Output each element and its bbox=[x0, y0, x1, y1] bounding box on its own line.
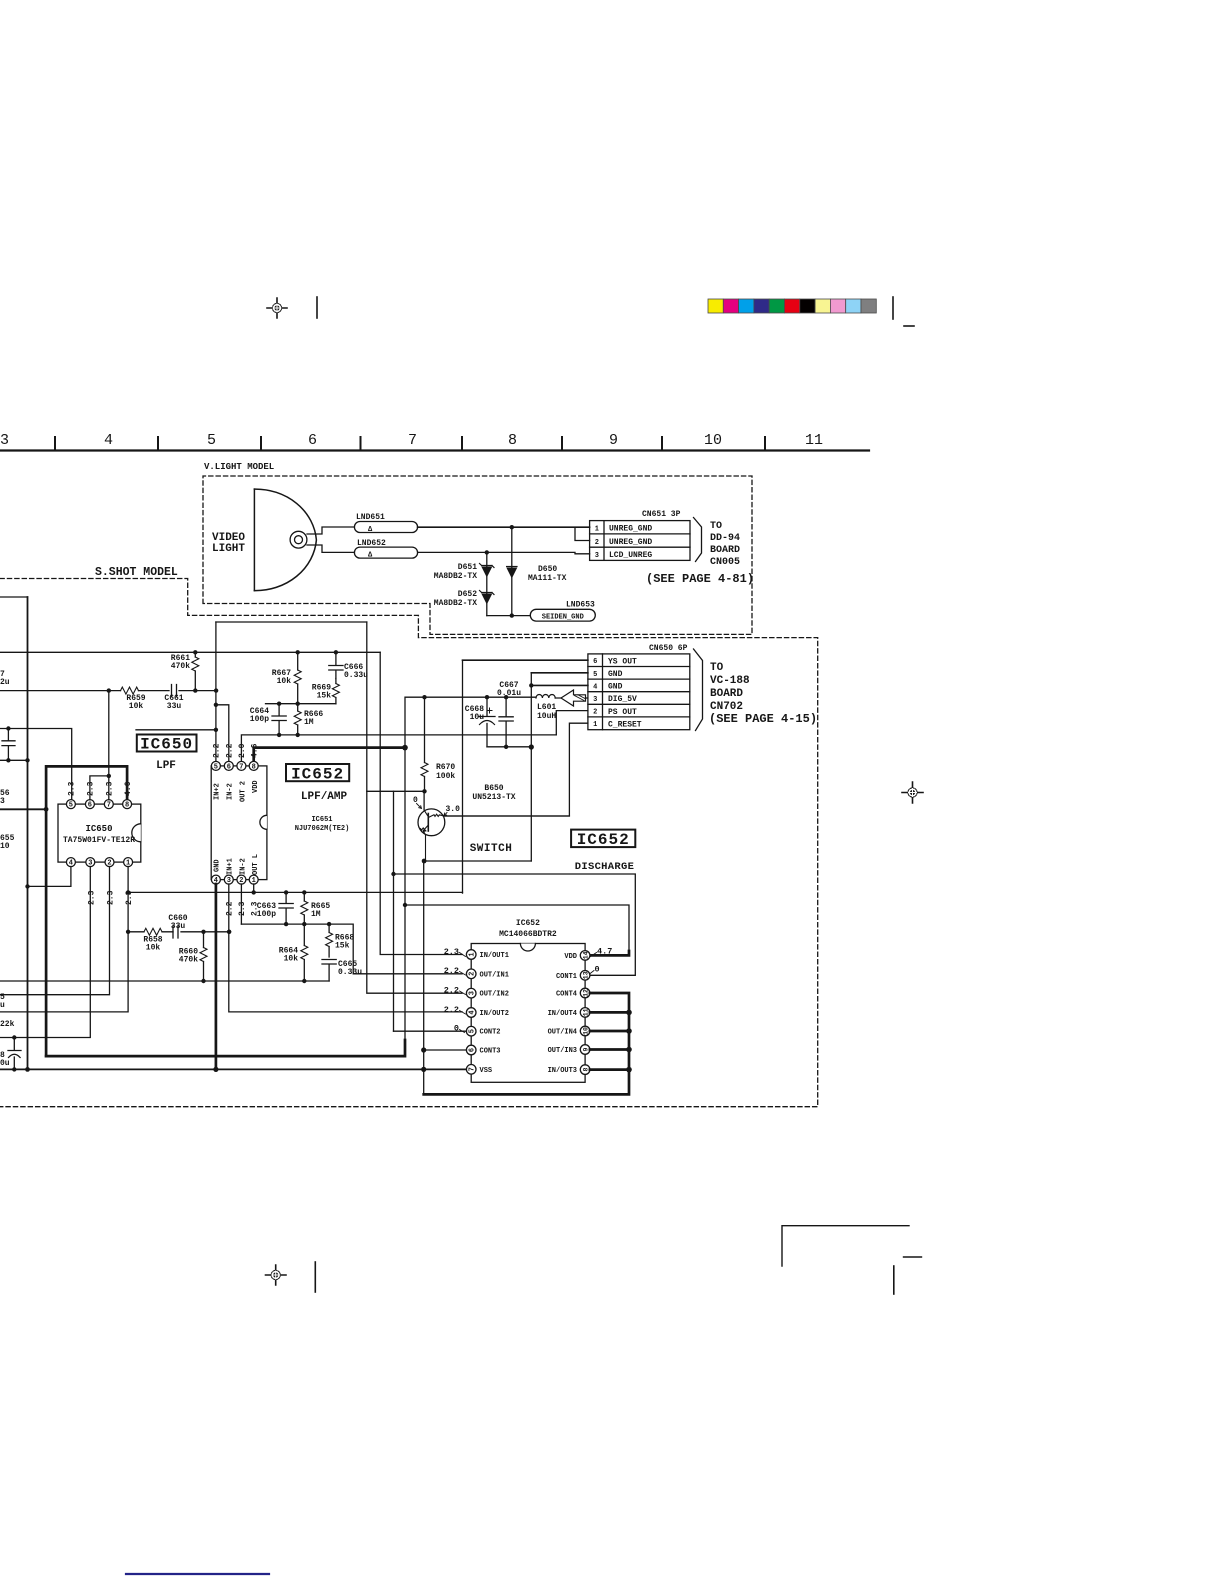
node junction on pin1 wire bbox=[510, 525, 514, 529]
svg-text:IN/OUT4: IN/OUT4 bbox=[548, 1010, 577, 1018]
svg-text:V.LIGHT MODEL: V.LIGHT MODEL bbox=[204, 462, 274, 472]
ferrite bead LND652 bbox=[354, 547, 417, 558]
svg-text:2.3: 2.3 bbox=[107, 890, 116, 905]
bottom-right corner frame bbox=[782, 1226, 909, 1266]
svg-text:IC652: IC652 bbox=[516, 919, 540, 928]
CONT2 row bbox=[394, 1030, 467, 1032]
capacitor C666 0.33u bbox=[329, 652, 343, 678]
svg-text:VDD: VDD bbox=[252, 780, 260, 793]
svg-text:6: 6 bbox=[469, 1048, 477, 1052]
label box IC650 bbox=[137, 735, 197, 752]
svg-text:TA75W01FV-TE12R: TA75W01FV-TE12R bbox=[63, 836, 135, 845]
capacitor C663 100p bbox=[279, 892, 293, 924]
capacitor C660 33u bbox=[173, 926, 178, 939]
svg-text:2.3: 2.3 bbox=[444, 947, 459, 957]
svg-text:IN-2: IN-2 bbox=[240, 858, 248, 875]
connector CN651 3P bbox=[590, 510, 690, 560]
svg-text:IN/OUT1: IN/OUT1 bbox=[480, 952, 509, 960]
capacitor C664 100p bbox=[272, 704, 286, 735]
svg-text:MA111-TX: MA111-TX bbox=[528, 574, 567, 583]
svg-text:5: 5 bbox=[593, 671, 597, 679]
wire C_RESET (pin1) bbox=[445, 723, 588, 816]
bold bottom run to discharge bus bbox=[46, 1040, 405, 1056]
svg-text:IN+2: IN+2 bbox=[214, 783, 222, 800]
svg-text:4.6: 4.6 bbox=[251, 743, 260, 758]
wire YS OUT (pin6) bbox=[463, 659, 588, 661]
svg-text:UN5213-TX: UN5213-TX bbox=[472, 793, 515, 802]
bold net IC650 pin8/VDD bbox=[46, 766, 127, 1056]
svg-text:10k: 10k bbox=[146, 944, 161, 953]
svg-text:2.2: 2.2 bbox=[213, 743, 222, 758]
node row y=703.7 bbox=[266, 703, 336, 705]
left pins 1-7 bbox=[466, 950, 476, 1074]
dashed box S.SHOT MODEL bbox=[0, 579, 818, 1107]
tiny annotation arrows bbox=[460, 953, 597, 1033]
svg-text:VDD: VDD bbox=[564, 953, 577, 961]
pin voltage labels IC650 top bbox=[68, 781, 135, 905]
svg-text:6: 6 bbox=[593, 658, 597, 666]
svg-text:VSS: VSS bbox=[480, 1067, 493, 1075]
svg-text:SWITCH: SWITCH bbox=[470, 843, 513, 855]
left fragment labels bbox=[0, 789, 15, 851]
row R658/C660 y=931.8 bbox=[128, 931, 229, 933]
svg-text:12: 12 bbox=[583, 989, 590, 997]
svg-text:8: 8 bbox=[125, 802, 129, 810]
svg-text:IC650: IC650 bbox=[85, 824, 112, 834]
svg-text:5: 5 bbox=[469, 1029, 477, 1033]
resistor R658 10k bbox=[144, 928, 162, 935]
svg-text:LIGHT: LIGHT bbox=[212, 543, 245, 555]
svg-text:UNREG_GND: UNREG_GND bbox=[609, 538, 652, 547]
wire IC650 pin7 up bbox=[108, 691, 110, 800]
wire IC650 pin4 bbox=[28, 867, 71, 887]
svg-text:22k: 22k bbox=[0, 1020, 15, 1029]
svg-text:6: 6 bbox=[227, 763, 231, 771]
brace right of CN651 bbox=[694, 518, 702, 562]
svg-text:10uH: 10uH bbox=[537, 712, 556, 721]
svg-text:YS OUT: YS OUT bbox=[608, 657, 637, 666]
svg-text:UNREG_GND: UNREG_GND bbox=[609, 525, 652, 534]
inductor L601 10uH bbox=[536, 694, 556, 721]
svg-text:2.3: 2.3 bbox=[106, 781, 115, 796]
svg-text:2: 2 bbox=[469, 972, 477, 976]
svg-text:14: 14 bbox=[583, 951, 590, 959]
svg-text:3: 3 bbox=[469, 991, 477, 995]
svg-text:8: 8 bbox=[583, 1068, 590, 1072]
svg-text:BOARD: BOARD bbox=[710, 545, 740, 556]
row OUT-L net y=892 bbox=[128, 891, 462, 893]
svg-text:2: 2 bbox=[595, 539, 599, 547]
CONT2 feed vertical bbox=[393, 791, 395, 1031]
svg-text:5: 5 bbox=[214, 763, 218, 771]
resistor R659 10k bbox=[121, 687, 139, 694]
svg-text:2.2: 2.2 bbox=[226, 901, 235, 916]
diode D650 bbox=[506, 527, 566, 615]
svg-text:2.2: 2.2 bbox=[226, 743, 235, 758]
svg-text:B650: B650 bbox=[484, 784, 503, 793]
svg-text:OUT/IN1: OUT/IN1 bbox=[480, 971, 509, 979]
svg-text:CONT1: CONT1 bbox=[556, 973, 577, 981]
svg-text:LPF: LPF bbox=[156, 760, 176, 772]
svg-text:5: 5 bbox=[207, 432, 216, 449]
transistor Q B650 (digital) bbox=[413, 791, 460, 861]
pin names inside chip bbox=[480, 952, 578, 1075]
svg-text:470k: 470k bbox=[171, 662, 190, 671]
resistor R660 470k bbox=[179, 932, 207, 981]
svg-text:9: 9 bbox=[583, 1047, 590, 1051]
svg-text:10: 10 bbox=[704, 432, 722, 449]
left fragment label (cut) bbox=[0, 670, 10, 687]
svg-text:2.0: 2.0 bbox=[238, 743, 247, 758]
svg-text:CONT4: CONT4 bbox=[556, 991, 577, 999]
svg-text:D650: D650 bbox=[538, 565, 557, 574]
svg-text:2.3: 2.3 bbox=[68, 781, 77, 796]
svg-text:1: 1 bbox=[595, 526, 599, 534]
capacitor C661 33u bbox=[172, 685, 177, 697]
svg-text:GND: GND bbox=[608, 670, 623, 679]
svg-text:3: 3 bbox=[0, 432, 9, 449]
svg-text:LND651: LND651 bbox=[356, 513, 385, 522]
top-left stub bbox=[0, 596, 28, 598]
svg-text:10k: 10k bbox=[129, 702, 144, 711]
svg-text:DISCHARGE: DISCHARGE bbox=[575, 861, 634, 873]
svg-text:1M: 1M bbox=[311, 910, 321, 919]
CONT1 loop: row y=874 bbox=[394, 874, 636, 975]
row y=981 bbox=[0, 980, 329, 982]
trim tick top-left bbox=[316, 297, 318, 318]
power entry arrow into DIG_5V bbox=[561, 690, 586, 706]
CONT3 row bbox=[424, 1049, 467, 1051]
wire IC650 pin2 bbox=[0, 867, 110, 995]
svg-text:1: 1 bbox=[593, 721, 597, 729]
svg-text:IN-2: IN-2 bbox=[227, 783, 235, 800]
wire IC651 pin7 to PS OUT row bbox=[241, 735, 556, 762]
pin voltage labels IC651 top bbox=[213, 743, 260, 916]
tall loop right vertical to OUT/IN2 row bbox=[367, 622, 462, 993]
svg-text:D651: D651 bbox=[458, 563, 477, 572]
svg-text:10: 10 bbox=[0, 842, 10, 851]
blue printing line bottom bbox=[126, 1573, 269, 1575]
svg-text:NJU7062M(TE2): NJU7062M(TE2) bbox=[295, 825, 350, 833]
svg-text:IC652: IC652 bbox=[577, 831, 630, 849]
svg-text:LND652: LND652 bbox=[357, 539, 386, 548]
svg-text:10k: 10k bbox=[284, 955, 299, 964]
wire IC651 pin2 bbox=[240, 884, 242, 924]
svg-text:(SEE PAGE 4-15): (SEE PAGE 4-15) bbox=[709, 712, 817, 726]
row into pin5 area bbox=[136, 729, 216, 731]
svg-text:100p: 100p bbox=[257, 910, 276, 919]
svg-text:IC651: IC651 bbox=[311, 816, 332, 824]
svg-text:0: 0 bbox=[454, 1024, 459, 1034]
connector CN650 6P bbox=[588, 644, 690, 730]
resistor R665 1M bbox=[303, 892, 305, 924]
svg-text:2.2: 2.2 bbox=[444, 986, 459, 996]
zener diode D651 bbox=[434, 552, 494, 615]
svg-text:CONT3: CONT3 bbox=[480, 1048, 501, 1056]
svg-text:2u: 2u bbox=[0, 678, 10, 687]
svg-text:100k: 100k bbox=[436, 772, 455, 781]
svg-text:LND653: LND653 bbox=[566, 601, 595, 610]
svg-text:OUT/IN3: OUT/IN3 bbox=[548, 1047, 577, 1055]
resistor R669 15k bbox=[335, 679, 337, 704]
collector row to C_RESET bbox=[445, 815, 570, 817]
wire IC651 pin3 bbox=[229, 884, 462, 1012]
svg-text:u: u bbox=[0, 1001, 5, 1010]
svg-text:6: 6 bbox=[88, 802, 92, 810]
svg-text:7: 7 bbox=[469, 1067, 477, 1071]
svg-text:15k: 15k bbox=[335, 942, 350, 951]
svg-text:4.7: 4.7 bbox=[597, 947, 612, 957]
svg-text:C_RESET: C_RESET bbox=[608, 720, 642, 729]
svg-text:0.01u: 0.01u bbox=[497, 689, 521, 698]
chip IC651 NJU7062M bbox=[211, 761, 267, 885]
zener diode D652 bbox=[434, 590, 494, 608]
net IN+2 vertical (tall loop left) bbox=[215, 622, 217, 761]
bottom-right small dash bbox=[904, 1256, 922, 1258]
resistor R668 15k bbox=[328, 924, 330, 957]
right pins 14-8 bbox=[580, 951, 590, 1075]
svg-text:2: 2 bbox=[593, 709, 597, 717]
svg-text:6: 6 bbox=[308, 432, 317, 449]
wire IC651 pin1 bbox=[253, 884, 255, 892]
bottom rail VSS y=1069.4 bbox=[0, 1068, 467, 1070]
ruler numbers bbox=[0, 432, 823, 449]
svg-text:11: 11 bbox=[805, 432, 823, 449]
resistor R667 10k bbox=[297, 652, 299, 703]
svg-text:IN/OUT2: IN/OUT2 bbox=[480, 1010, 509, 1018]
svg-text:2.3: 2.3 bbox=[87, 781, 96, 796]
svg-text:4: 4 bbox=[104, 432, 113, 449]
registration crosshair top-left bbox=[267, 298, 287, 318]
row y=924 bbox=[241, 924, 462, 974]
svg-text:OUT L: OUT L bbox=[252, 854, 260, 875]
svg-text:TO: TO bbox=[710, 662, 724, 674]
voltage annotations left pins bbox=[444, 947, 459, 1034]
base feed row bbox=[367, 790, 425, 792]
svg-text:2.2: 2.2 bbox=[444, 1005, 459, 1015]
svg-text:LPF/AMP: LPF/AMP bbox=[301, 791, 348, 803]
svg-text:9: 9 bbox=[609, 432, 618, 449]
stub CN651 pin2 bbox=[575, 527, 590, 540]
svg-text:S.SHOT MODEL: S.SHOT MODEL bbox=[95, 566, 178, 579]
trim tick bottom-left bbox=[314, 1262, 316, 1292]
svg-text:8: 8 bbox=[508, 432, 517, 449]
svg-text:GND: GND bbox=[214, 859, 222, 872]
svg-text:CN005: CN005 bbox=[710, 557, 740, 568]
wire LND651 to CN651 pin1 bbox=[418, 526, 590, 528]
trim tick bottom-right bbox=[893, 1266, 895, 1294]
dashed box V.LIGHT MODEL bbox=[203, 476, 752, 634]
wire IC651 pin4 bold to VSS bbox=[215, 884, 218, 1069]
svg-text:IC650: IC650 bbox=[140, 736, 193, 754]
svg-text:7: 7 bbox=[107, 802, 111, 810]
svg-text:5: 5 bbox=[69, 802, 73, 810]
svg-text:LCD_UNREG: LCD_UNREG bbox=[609, 551, 652, 560]
VDD distribution vertical bbox=[404, 697, 406, 1040]
svg-text:4: 4 bbox=[593, 683, 597, 691]
svg-text:2.2: 2.2 bbox=[444, 966, 459, 976]
gnd tie segment under C667/C668 bbox=[487, 746, 531, 748]
row 22k node y=1037.5 bbox=[12, 1035, 16, 1039]
rail y=690.6 with R659 / C661 bbox=[0, 690, 216, 692]
svg-text:VC-188: VC-188 bbox=[710, 675, 750, 687]
svg-text:MC14066BDTR2: MC14066BDTR2 bbox=[499, 930, 557, 939]
bold VDD wire IC651 pin8 bbox=[254, 748, 405, 762]
svg-text:0: 0 bbox=[595, 965, 600, 975]
chip IC652 MC14066BDTR2 bbox=[471, 919, 585, 1082]
wire PS OUT (pin2) bbox=[556, 711, 588, 735]
svg-text:3: 3 bbox=[595, 552, 599, 560]
rail DIG_5V y=697 bbox=[405, 696, 536, 698]
ferrite bead LND653 SEIDEN_GND bbox=[530, 609, 595, 621]
wire IC650 pin3 bbox=[0, 867, 90, 1038]
wire to LND653 bbox=[487, 615, 531, 617]
svg-text:R670: R670 bbox=[436, 763, 455, 772]
left cap (cut component) bbox=[2, 729, 15, 761]
svg-text:TO: TO bbox=[710, 521, 722, 532]
svg-text:33u: 33u bbox=[167, 702, 182, 711]
capacitor C668 10u electrolytic bbox=[465, 697, 495, 747]
wire lamp to LND652 bbox=[307, 545, 354, 552]
tall loop top edge bbox=[216, 621, 367, 623]
ruler line bbox=[0, 449, 869, 451]
svg-text:DIG_5V: DIG_5V bbox=[608, 695, 637, 704]
resistor R661 470k bbox=[171, 652, 199, 690]
registration crosshair mid-right bbox=[902, 782, 923, 803]
ferrite bead LND651 bbox=[354, 522, 417, 533]
jog IC651 pin6 bbox=[216, 705, 229, 762]
row to IC650 pin5 bbox=[0, 729, 72, 800]
chip IC650 TA75W01FV-TE12R bbox=[58, 800, 141, 868]
net to IN/OUT1: rail drop bbox=[380, 652, 462, 954]
resistor R666 1M bbox=[297, 704, 299, 735]
svg-text:IN/OUT3: IN/OUT3 bbox=[548, 1067, 577, 1075]
small corner dash top-right bbox=[904, 325, 914, 327]
label B650 UN5213-TX bbox=[470, 784, 516, 855]
svg-text:33u: 33u bbox=[171, 922, 186, 931]
svg-text:1M: 1M bbox=[304, 718, 314, 727]
svg-text:CN651 3P: CN651 3P bbox=[642, 510, 681, 519]
rail y=652 bbox=[0, 651, 380, 653]
svg-text:10u: 10u bbox=[470, 713, 485, 722]
svg-text:0u: 0u bbox=[0, 1059, 10, 1068]
svg-text:CN650 6P: CN650 6P bbox=[649, 644, 688, 653]
svg-text:4.6: 4.6 bbox=[124, 781, 133, 796]
svg-text:L601: L601 bbox=[537, 703, 556, 712]
label box IC652 (DISCHARGE) bbox=[571, 830, 635, 848]
VDD row y=905 to pin14 bbox=[405, 905, 629, 951]
svg-text:3: 3 bbox=[593, 696, 597, 704]
electrolytic cap bottom-left bbox=[8, 1038, 21, 1070]
svg-text:CONT2: CONT2 bbox=[480, 1029, 501, 1037]
svg-text:4: 4 bbox=[469, 1010, 477, 1014]
svg-text:11: 11 bbox=[583, 1008, 590, 1016]
resistor R664 10k bbox=[303, 924, 305, 981]
svg-text:7: 7 bbox=[408, 432, 417, 449]
color calibration bar bbox=[708, 299, 876, 313]
svg-text:BOARD: BOARD bbox=[710, 688, 743, 700]
svg-text:10: 10 bbox=[583, 1027, 590, 1035]
svg-text:IN+1: IN+1 bbox=[227, 858, 235, 875]
svg-text:MA8DB2-TX: MA8DB2-TX bbox=[434, 599, 477, 608]
emitter/gnd row y=861 bbox=[424, 860, 531, 862]
video light lamp symbol bbox=[254, 489, 316, 591]
svg-text:13: 13 bbox=[583, 971, 590, 979]
svg-text:DD-94: DD-94 bbox=[710, 533, 740, 544]
wire IC650 pin6 jog to pin7 bbox=[90, 776, 109, 800]
svg-text:0.33u: 0.33u bbox=[344, 671, 368, 680]
discharge block left bus bbox=[423, 861, 425, 1094]
left fragments lower bbox=[0, 993, 15, 1029]
svg-text:3: 3 bbox=[0, 797, 5, 806]
svg-text:SEIDEN_GND: SEIDEN_GND bbox=[542, 614, 584, 622]
label box IC652 (LPF/AMP) bbox=[286, 764, 349, 781]
wire IC650 pin1 bbox=[0, 867, 128, 1012]
svg-text:10k: 10k bbox=[277, 677, 292, 686]
svg-text:PS OUT: PS OUT bbox=[608, 708, 637, 717]
row y=760 bbox=[0, 759, 28, 761]
svg-text:IC652: IC652 bbox=[291, 766, 344, 784]
svg-text:2.3: 2.3 bbox=[238, 901, 247, 916]
left bus vertical bbox=[27, 597, 29, 1069]
svg-text:100p: 100p bbox=[250, 715, 269, 724]
svg-text:2.3: 2.3 bbox=[88, 890, 97, 905]
svg-text:470k: 470k bbox=[179, 956, 198, 965]
svg-text:0.33u: 0.33u bbox=[338, 968, 362, 977]
svg-text:MA8DB2-TX: MA8DB2-TX bbox=[434, 572, 477, 581]
wire GND (pin5) bbox=[531, 672, 588, 674]
net GND vertical bbox=[530, 673, 532, 861]
wire LND652 to CN651 pin3 bbox=[418, 552, 590, 553]
wire lamp to LND651 bbox=[307, 527, 354, 534]
svg-text:3.0: 3.0 bbox=[446, 805, 461, 814]
trim tick right of colour bar bbox=[892, 297, 894, 319]
node junction on pin3 wire bbox=[485, 550, 489, 554]
svg-text:15k: 15k bbox=[317, 692, 332, 701]
svg-text:OUT/IN2: OUT/IN2 bbox=[480, 991, 509, 999]
registration crosshair bottom-left bbox=[266, 1265, 287, 1285]
svg-text:OUT/IN4: OUT/IN4 bbox=[548, 1029, 577, 1037]
capacitor C665 0.33u bbox=[322, 960, 336, 982]
thick stub y=809 bbox=[0, 808, 46, 810]
svg-text:OUT 2: OUT 2 bbox=[240, 781, 248, 802]
capacitor C667 0.01u bbox=[497, 681, 521, 747]
resistor R670 100k bbox=[421, 697, 455, 791]
ruler ticks bbox=[55, 437, 765, 450]
wire GND (pin4) bbox=[531, 684, 588, 686]
svg-text:8: 8 bbox=[252, 763, 256, 771]
svg-text:(SEE PAGE 4-81): (SEE PAGE 4-81) bbox=[646, 572, 754, 586]
svg-text:1: 1 bbox=[469, 952, 477, 956]
right side bold bus pins 12-8 bbox=[424, 993, 629, 1094]
brace right of CN650 bbox=[694, 649, 703, 731]
svg-text:GND: GND bbox=[608, 683, 623, 692]
svg-text:7: 7 bbox=[239, 763, 243, 771]
net YS OUT vertical bbox=[462, 660, 464, 893]
svg-text:D652: D652 bbox=[458, 590, 477, 599]
